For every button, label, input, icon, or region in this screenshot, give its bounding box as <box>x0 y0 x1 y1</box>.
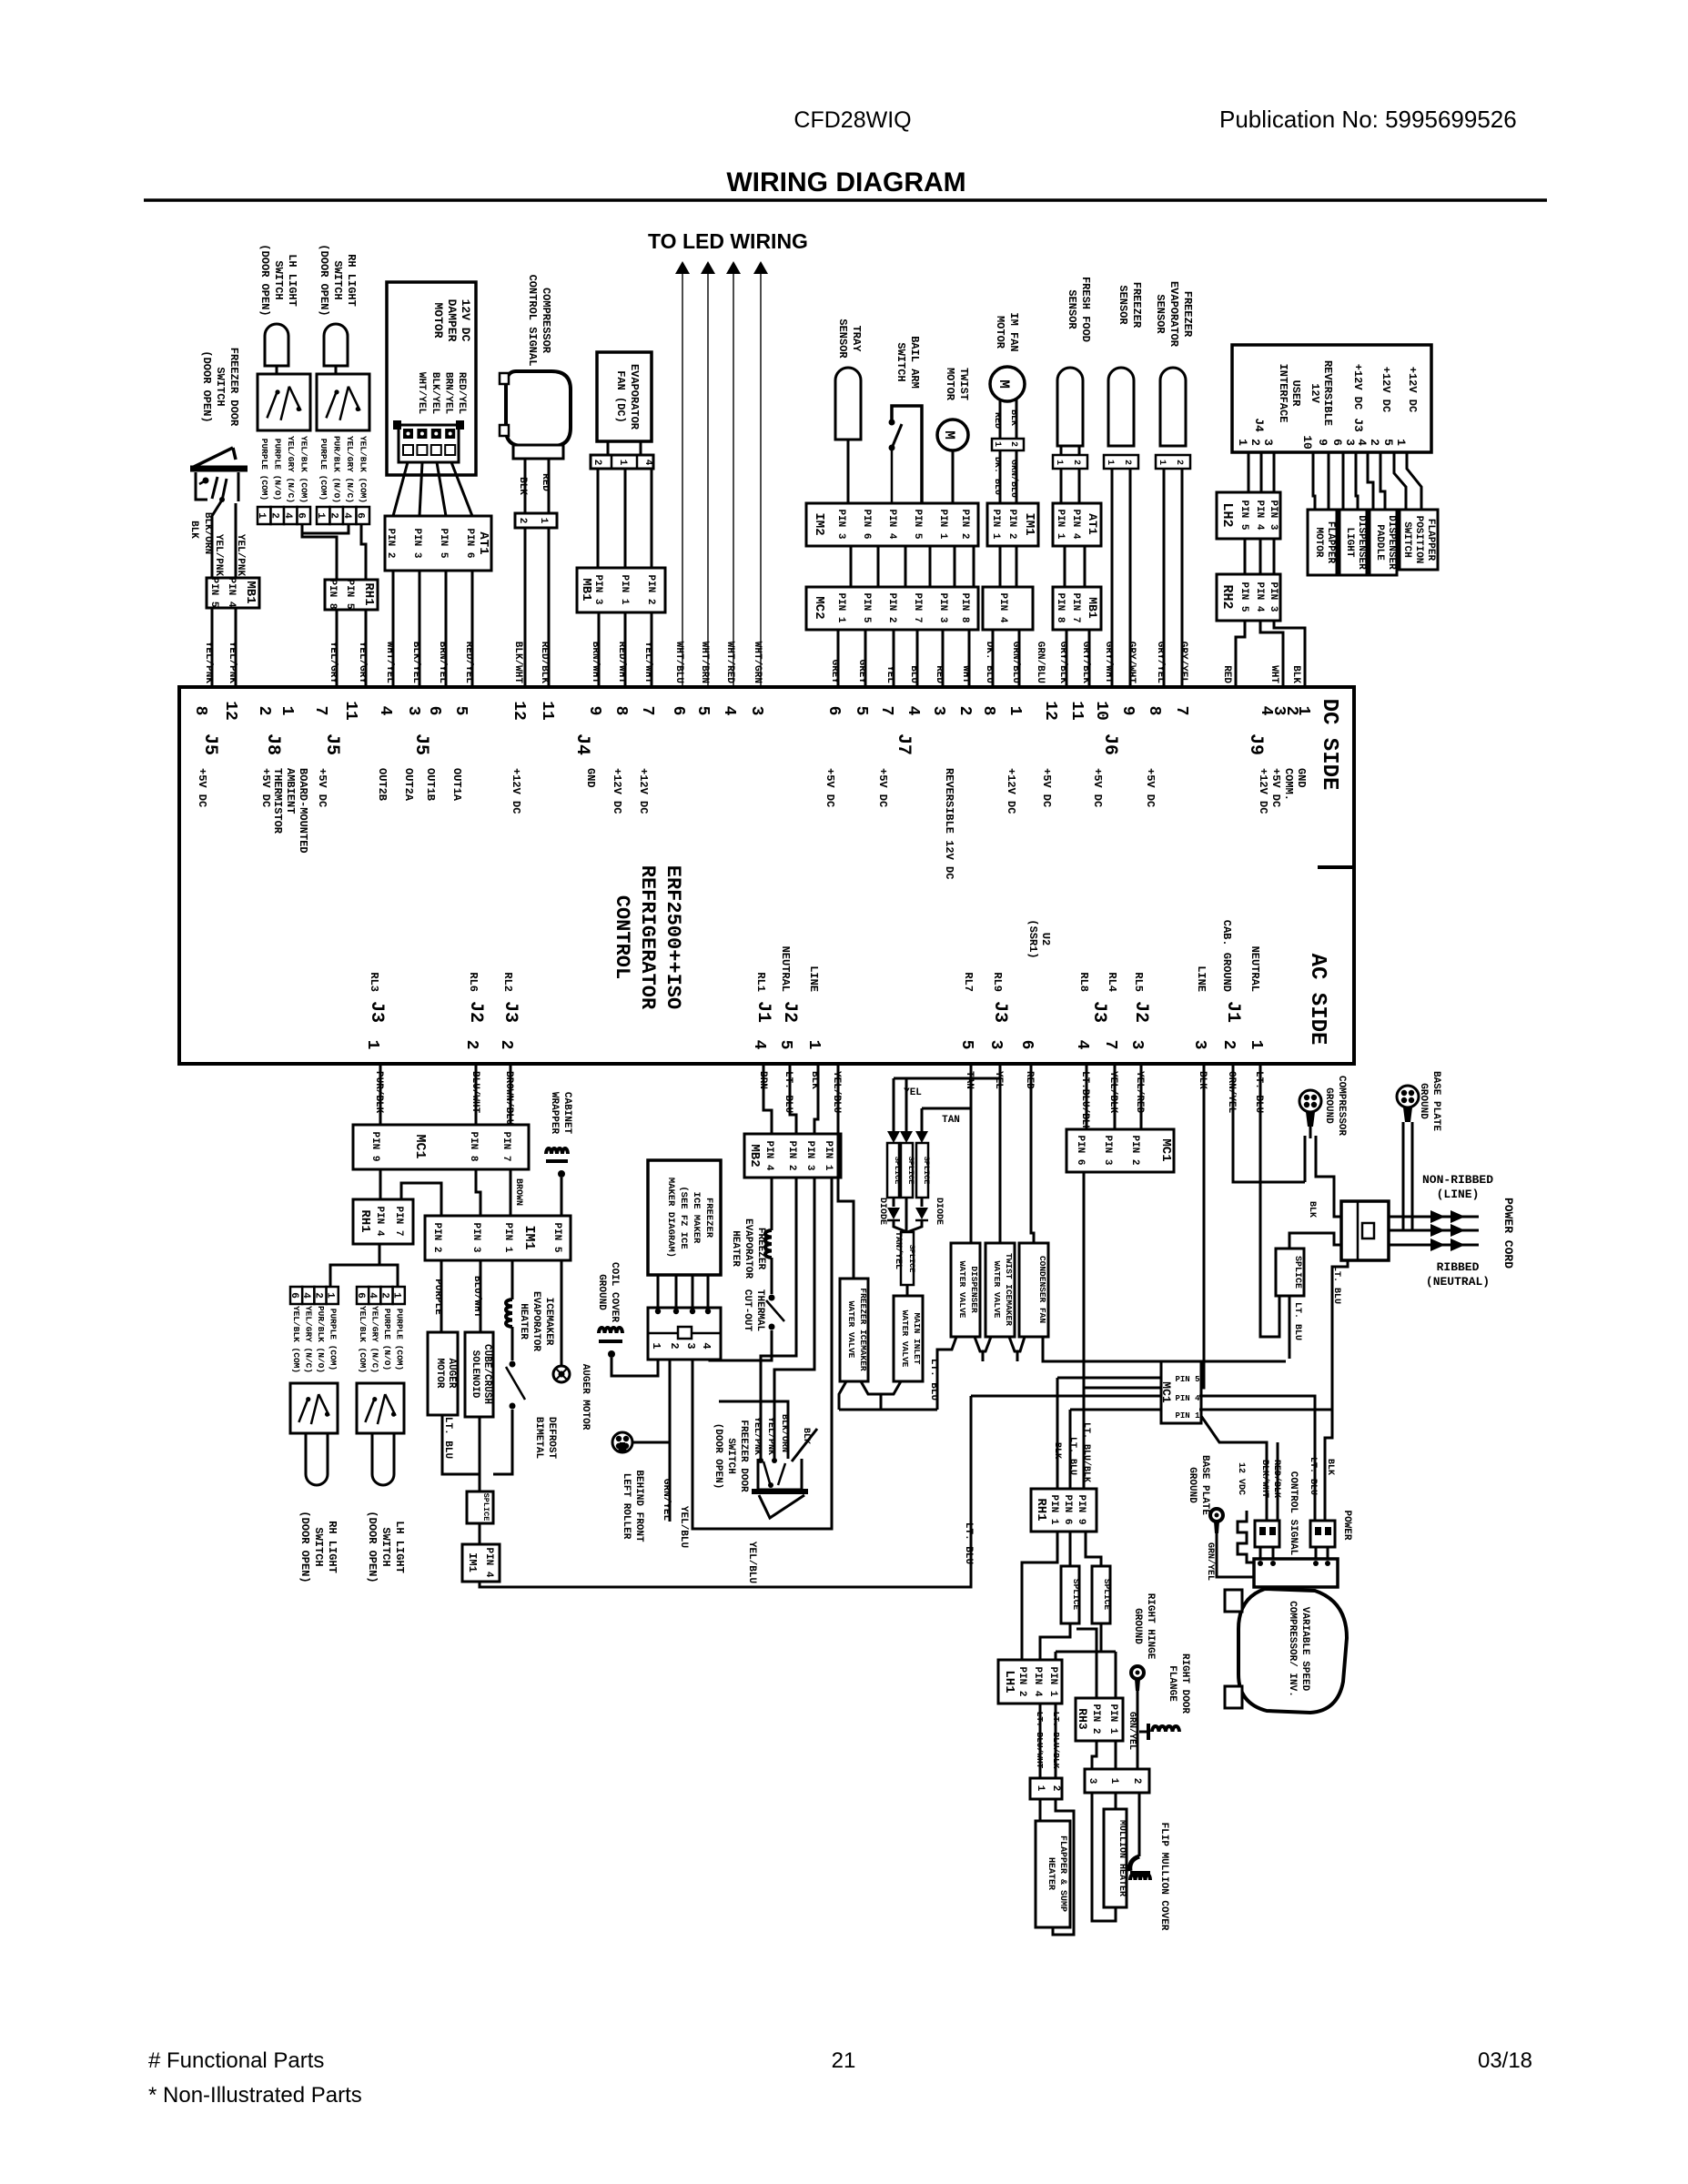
wire control signal wires a <box>1201 1416 1267 1521</box>
svg-text:FREEZER: FREEZER <box>1130 282 1143 329</box>
svg-text:PIN 6: PIN 6 <box>1075 1135 1086 1165</box>
svg-text:8: 8 <box>612 706 630 716</box>
svg-text:NEUTRAL: NEUTRAL <box>779 946 792 992</box>
svg-text:LT. BLU: LT. BLU <box>783 1071 793 1113</box>
wire MC1 pin8 to IM1 pin3 <box>476 1169 480 1216</box>
svg-text:GND: GND <box>584 768 597 788</box>
wire WHT/YEL AT1 to J5 <box>392 571 395 687</box>
wire J3-9 to flapper motor <box>1328 452 1330 510</box>
wire valve trapezoid B <box>1009 1337 1025 1351</box>
connector 2|1|4 (evap fan) <box>591 455 653 469</box>
svg-text:U2: U2 <box>1039 933 1052 945</box>
svg-text:EVAPORATOR: EVAPORATOR <box>628 364 641 430</box>
svg-text:12: 12 <box>510 701 528 721</box>
svg-text:SWITCH: SWITCH <box>214 367 227 406</box>
svg-text:LH LIGHT: LH LIGHT <box>286 254 298 307</box>
svg-text:RH1: RH1 <box>361 582 376 605</box>
svg-text:PIN 3: PIN 3 <box>1268 581 1279 612</box>
svg-text:4: 4 <box>904 706 922 716</box>
LED wiring arrow WHT/GRN <box>753 261 768 274</box>
wire ice maker lead <box>675 1275 678 1308</box>
wire RH1 pin7 to IM1 pin2 <box>401 1183 441 1216</box>
motor IM fan <box>990 367 1025 401</box>
wire mullion heater lead <box>1115 1793 1117 1809</box>
svg-text:3: 3 <box>747 706 765 716</box>
svg-text:RED/BLK: RED/BLK <box>1271 1460 1282 1498</box>
svg-text:PIN 1: PIN 1 <box>619 574 630 604</box>
svg-text:YEL/BLU: YEL/BLU <box>746 1542 757 1583</box>
wire WHT/BLU LED line <box>682 274 683 687</box>
thermal cut-out switch <box>766 1295 784 1330</box>
wire LH2-RH2 a <box>1244 539 1247 574</box>
svg-text:2: 2 <box>312 1292 323 1299</box>
wire RED/YEL AT1 to J5 <box>471 571 474 687</box>
box CUBE/CRUSH SOLENOID <box>465 1332 493 1417</box>
connector MC1 (cabinet) <box>353 1125 529 1169</box>
svg-text:BAIL ARM: BAIL ARM <box>908 336 921 389</box>
wire splice to IM1 pin4 <box>479 1523 481 1544</box>
compressor variable speed inverter <box>1238 1589 1347 1713</box>
svg-text:IM2: IM2 <box>812 512 826 535</box>
svg-text:REVERSIBLE: REVERSIBLE <box>1321 360 1334 426</box>
wire YEL branch <box>999 1064 1002 1243</box>
svg-text:FRESH FOOD: FRESH FOOD <box>1079 277 1092 342</box>
svg-text:WRAPPER: WRAPPER <box>549 1092 560 1135</box>
wire valve trapezoid lower <box>861 1381 901 1394</box>
wire splice mid <box>905 1198 908 1232</box>
svg-text:1: 1 <box>1247 1040 1265 1050</box>
svg-text:+5V DC: +5V DC <box>1269 768 1282 807</box>
wire J4-2 to LH2 <box>1260 452 1263 492</box>
wire WHT/GRN LED line <box>760 274 762 687</box>
svg-text:PIN 4: PIN 4 <box>483 1547 494 1577</box>
defrost bimetal switch <box>506 1361 525 1410</box>
svg-text:BLK: BLK <box>801 1428 811 1444</box>
wire LT.BLU/BLK J3-4 to MC1 <box>1086 1064 1088 1129</box>
wire RH lamp lead <box>335 366 338 374</box>
svg-text:ERF2500++ISO: ERF2500++ISO <box>662 865 684 1009</box>
wire LT. BLU valve chain <box>937 1337 956 1410</box>
svg-text:DEFROST: DEFROST <box>546 1417 557 1460</box>
wire J3-5 to flapper position switch <box>1394 452 1406 510</box>
svg-text:SENSOR: SENSOR <box>1154 294 1167 334</box>
svg-text:RH1: RH1 <box>358 1209 372 1232</box>
svg-text:LT.BLU/BLK: LT.BLU/BLK <box>1079 1071 1090 1131</box>
svg-text:J2: J2 <box>465 1001 486 1023</box>
lamp symbol LH light (bottom) <box>372 1433 394 1485</box>
svg-text:TO LED WIRING: TO LED WIRING <box>648 229 808 253</box>
wire PURPLE IM1 pin2 to auger motor <box>440 1260 443 1332</box>
svg-text:YEL/BLK (COM): YEL/BLK (COM) <box>359 436 369 503</box>
svg-text:AMBIENT: AMBIENT <box>284 768 297 814</box>
svg-text:2: 2 <box>1368 439 1381 446</box>
svg-text:8: 8 <box>979 706 997 716</box>
svg-text:1: 1 <box>1157 460 1167 465</box>
wire base plate gnd wire b <box>1411 1122 1414 1230</box>
sensor freezer <box>1108 368 1134 446</box>
svg-text:(LINE): (LINE) <box>1437 1188 1480 1201</box>
svg-text:PIN 3: PIN 3 <box>470 1222 481 1252</box>
svg-text:J3: J3 <box>500 1001 521 1023</box>
wire LT. BLU/BLK drop to RH1B <box>1083 1388 1086 1489</box>
wire lower valve drop <box>880 1394 883 1410</box>
wire BLK/ORN to MB1 <box>212 501 221 578</box>
wire ice maker lead <box>657 1275 660 1308</box>
svg-text:PIN 2: PIN 2 <box>959 509 970 539</box>
svg-text:RIGHT HINGE: RIGHT HINGE <box>1145 1593 1156 1660</box>
svg-text:LT. BLU: LT. BLU <box>963 1522 974 1564</box>
wire damper pin fan-out 1 <box>393 462 408 516</box>
wire compressor gnd to plug <box>1304 1136 1307 1182</box>
svg-text:(DOOR OPEN): (DOOR OPEN) <box>258 244 271 316</box>
svg-text:AT1: AT1 <box>476 531 490 554</box>
svg-text:3: 3 <box>404 706 422 716</box>
wire RH1B pin9 to splice <box>1086 1532 1101 1566</box>
wire IM2-MC2 link <box>905 546 907 587</box>
svg-text:FLAPPER: FLAPPER <box>1425 519 1436 561</box>
svg-text:5: 5 <box>776 1040 794 1050</box>
svg-text:+12V DC: +12V DC <box>1380 367 1392 412</box>
wire LH2-RH2 c <box>1273 539 1276 574</box>
svg-text:IM1: IM1 <box>466 1552 479 1572</box>
svg-text:OUT2A: OUT2A <box>402 768 415 802</box>
svg-text:HEATER: HEATER <box>730 1230 741 1267</box>
svg-text:MB2: MB2 <box>747 1144 762 1167</box>
wire IM2-MC2 link <box>973 546 975 587</box>
svg-text:PIN 3: PIN 3 <box>592 574 603 604</box>
svg-text:1: 1 <box>325 1292 336 1299</box>
svg-text:MB1: MB1 <box>579 578 593 601</box>
svg-text:3: 3 <box>1261 439 1275 446</box>
wire YEL splice feed <box>894 1077 1000 1080</box>
wire IM1 to PIN4 box b <box>1016 546 1018 587</box>
svg-text:2: 2 <box>1071 460 1081 465</box>
wire diode a lead <box>893 1198 895 1207</box>
wire solenoid to splice <box>479 1417 481 1491</box>
svg-text:RH1: RH1 <box>1034 1498 1048 1521</box>
svg-text:PIN 1: PIN 1 <box>937 509 948 539</box>
wire inverter feed a <box>1259 1547 1262 1559</box>
wire J3-4 to dispenser paddle <box>1368 452 1373 510</box>
wire GRY/BLK to J6 b <box>1088 630 1091 687</box>
svg-text:10: 10 <box>1300 435 1314 450</box>
svg-text:1: 1 <box>1054 460 1064 465</box>
ground lug compressor ground <box>1299 1090 1321 1138</box>
svg-text:3: 3 <box>1127 1040 1146 1050</box>
svg-text:PADDLE: PADDLE <box>1374 524 1385 561</box>
svg-text:M: M <box>996 379 1012 389</box>
svg-text:M: M <box>941 430 957 440</box>
svg-text:1: 1 <box>363 1040 381 1050</box>
svg-text:HEATER: HEATER <box>1046 1857 1056 1890</box>
connector RH1 (light switches) <box>325 579 378 610</box>
svg-text:SPLICE: SPLICE <box>1102 1579 1112 1611</box>
svg-text:SWITCH: SWITCH <box>725 1438 736 1474</box>
svg-text:RED/YEL: RED/YEL <box>456 372 467 415</box>
svg-text:PIN 5: PIN 5 <box>551 1222 562 1252</box>
inverter connector strip <box>1254 1559 1338 1587</box>
wire J3-10 to flapper motor <box>1313 452 1315 510</box>
svg-text:WIRING DIAGRAM: WIRING DIAGRAM <box>726 167 965 197</box>
svg-text:PIN 9: PIN 9 <box>1076 1494 1087 1524</box>
wire LT. BLU/BLK MC1 pin6 down <box>1083 1172 1086 1388</box>
wire YEL/WHT to J4 <box>651 612 653 687</box>
svg-text:MOTOR: MOTOR <box>431 302 445 338</box>
svg-text:LT. BLU/WHT: LT. BLU/WHT <box>1035 1712 1045 1769</box>
svg-text:12V: 12V <box>1309 383 1321 403</box>
wire damper pin fan-out 3 <box>437 462 446 516</box>
svg-text:2: 2 <box>517 518 528 524</box>
svg-text:+5V DC: +5V DC <box>1144 768 1157 807</box>
svg-text:3: 3 <box>1087 1778 1097 1785</box>
svg-text:5: 5 <box>693 706 712 716</box>
wire coil cover gnd to fz connector <box>612 1358 658 1376</box>
svg-text:PIN 3: PIN 3 <box>411 528 422 558</box>
wire TAN splice feed <box>922 1107 971 1110</box>
svg-text:RL2: RL2 <box>501 972 514 992</box>
wire LT. BLU J2-5 to MB2 <box>790 1064 796 1134</box>
connector 12 VDC control signal <box>1255 1521 1279 1547</box>
svg-text:YEL/BLU: YEL/BLU <box>678 1506 689 1548</box>
svg-text:8: 8 <box>1145 706 1163 716</box>
wire evap fan stub 2 <box>640 441 642 455</box>
svg-text:PIN 2: PIN 2 <box>1129 1135 1140 1165</box>
svg-text:2: 2 <box>1248 439 1262 446</box>
wire flip mullion lead <box>1138 1793 1141 1838</box>
wire switch feed jumper <box>346 1265 398 1287</box>
svg-text:LT. BLU/BLK: LT. BLU/BLK <box>1081 1422 1092 1482</box>
box DISPENSER LIGHT <box>1339 510 1367 575</box>
svg-text:9: 9 <box>1316 439 1329 446</box>
svg-text:LT. BLU: LT. BLU <box>1067 1437 1077 1475</box>
LED wiring arrow WHT/RED <box>726 261 741 274</box>
connector pins 6 4 2 1 (LH light switch bottom) <box>355 1287 405 1304</box>
wire YEL/BLU fz pin3 loop <box>692 1178 832 1529</box>
wire RH1B pin6 to splice <box>1069 1532 1072 1566</box>
connector LH2 <box>1217 492 1280 539</box>
svg-text:BASE PLATE: BASE PLATE <box>1430 1071 1441 1131</box>
svg-text:6: 6 <box>669 706 687 716</box>
connector pins 1 2 4 6 (LH light switch) <box>256 507 310 524</box>
svg-text:BASE PLATE: BASE PLATE <box>1199 1455 1210 1515</box>
svg-text:1: 1 <box>1105 460 1115 465</box>
svg-text:YEL: YEL <box>904 1087 922 1098</box>
svg-text:NEUTRAL: NEUTRAL <box>1248 946 1261 992</box>
wire YEL/GRY RH1 pin5 to J5 <box>336 610 339 687</box>
svg-text:MB1: MB1 <box>1086 597 1099 619</box>
wire GRY/BLK to J6 <box>1066 630 1068 687</box>
svg-text:PIN 8: PIN 8 <box>1055 592 1066 622</box>
wire diode join a <box>894 1221 907 1232</box>
heater coil icemaker evaporator <box>506 1299 512 1327</box>
svg-text:REVERSIBLE 12V DC: REVERSIBLE 12V DC <box>943 768 955 879</box>
svg-text:PIN 4: PIN 4 <box>1032 1666 1043 1696</box>
svg-text:BROWN: BROWN <box>513 1178 523 1206</box>
svg-text:MC1: MC1 <box>412 1134 428 1158</box>
switch RH light switch <box>317 374 369 430</box>
wire splice2 to bus <box>1100 1623 1103 1652</box>
svg-text:PUR/BLK (N/O): PUR/BLK (N/O) <box>332 436 342 503</box>
svg-text:FREEZER: FREEZER <box>703 1198 714 1239</box>
wire bus to LH1 pin1 <box>1055 1652 1057 1660</box>
switch LH light switch (bottom) <box>357 1383 404 1433</box>
lamp auger motor <box>553 1366 570 1382</box>
svg-text:PIN 5: PIN 5 <box>208 577 219 607</box>
svg-text:CONDENSER FAN: CONDENSER FAN <box>1037 1256 1047 1323</box>
wire power cord line <box>1389 1216 1479 1218</box>
svg-text:BLK: BLK <box>1307 1201 1317 1218</box>
wire GRN/YEL J1-2 to ground <box>1233 1064 1305 1182</box>
damper motor connector <box>393 420 464 462</box>
svg-text:ICEMAKER: ICEMAKER <box>543 1298 554 1346</box>
wire BROWN/BLUE J3 to MC1 <box>510 1064 512 1125</box>
svg-text:PIN 5: PIN 5 <box>1238 581 1249 612</box>
box TWIST ICEMAKER WATER VALVE <box>986 1243 1015 1337</box>
wire BLK im fan lead <box>1016 398 1018 439</box>
svg-text:7: 7 <box>638 706 656 716</box>
svg-text:LH LIGHT: LH LIGHT <box>393 1521 406 1573</box>
svg-text:EVAPORATOR: EVAPORATOR <box>743 1218 753 1279</box>
svg-text:BLU/WHT: BLU/WHT <box>471 1276 482 1319</box>
svg-text:+12V DC: +12V DC <box>1406 367 1419 412</box>
svg-text:PURPLE (COM): PURPLE (COM) <box>395 1309 405 1370</box>
svg-text:6: 6 <box>425 706 443 716</box>
svg-text:6: 6 <box>288 1292 299 1299</box>
svg-text:YEL/GRY (N/C): YEL/GRY (N/C) <box>345 436 355 503</box>
wire power cord line <box>1389 1244 1479 1247</box>
svg-text:SWITCH: SWITCH <box>312 1527 325 1566</box>
svg-text:PIN 4: PIN 4 <box>1175 1394 1200 1403</box>
svg-text:PIN 1: PIN 1 <box>1048 1494 1059 1524</box>
svg-text:YEL/BLK (COM): YEL/BLK (COM) <box>291 1306 301 1373</box>
wire LH cell6 to RH1 <box>302 524 337 580</box>
svg-text:RH LIGHT: RH LIGHT <box>345 254 358 307</box>
svg-text:AUGER MOTOR: AUGER MOTOR <box>580 1364 591 1431</box>
svg-text:RL6: RL6 <box>467 972 480 992</box>
svg-text:J8: J8 <box>262 733 283 755</box>
ground lug right door flange <box>1139 1724 1179 1740</box>
svg-text:PURPLE (COM): PURPLE (COM) <box>318 439 329 500</box>
wire splice1 to LH1 pin4 <box>1040 1623 1070 1660</box>
svg-text:# Functional Parts: # Functional Parts <box>148 2048 324 2073</box>
connector MB2 <box>744 1134 841 1178</box>
svg-text:11: 11 <box>1067 701 1086 721</box>
svg-text:RIGHT DOOR: RIGHT DOOR <box>1179 1653 1190 1714</box>
svg-text:PUR/BLK (N/O): PUR/BLK (N/O) <box>316 1306 326 1373</box>
svg-text:RL3: RL3 <box>368 972 380 992</box>
svg-text:PIN 2: PIN 2 <box>385 528 396 558</box>
svg-text:DISPENSER: DISPENSER <box>1356 515 1367 570</box>
svg-text:SPLICE: SPLICE <box>1292 1256 1302 1289</box>
wire heater to bimetal <box>511 1327 514 1360</box>
svg-text:CUBE/CRUSH: CUBE/CRUSH <box>481 1344 492 1404</box>
wire ff sensor to AT1 2 <box>1078 469 1081 503</box>
svg-text:RL5: RL5 <box>1132 972 1145 992</box>
svg-text:PIN 4: PIN 4 <box>997 592 1008 622</box>
wire flapper heater lead 2 <box>1053 1799 1074 1935</box>
connector RH1 (heater) <box>1031 1489 1097 1532</box>
svg-text:BRN/YEL: BRN/YEL <box>442 372 453 415</box>
wire IM2-MC2 link <box>929 546 932 587</box>
wire GRN/BLU to J7 <box>1018 630 1021 687</box>
svg-text:4: 4 <box>1355 439 1369 446</box>
svg-text:J5: J5 <box>321 733 342 755</box>
wire WHT/RED LED line <box>733 274 734 687</box>
connector RH2 <box>1217 574 1280 621</box>
connector pins 1 2 4 6 (RH light switch) <box>315 507 369 524</box>
svg-text:RED: RED <box>992 412 1002 429</box>
wire cutout to fz pin4 <box>710 1330 772 1360</box>
svg-text:TRAY: TRAY <box>850 326 863 353</box>
connector 1|2 (freezer sensor) <box>1104 455 1138 469</box>
wire fz evap sensor lead b <box>1181 469 1184 687</box>
svg-text:MC1: MC1 <box>1158 1138 1173 1161</box>
svg-text:SENSOR: SENSOR <box>836 318 849 359</box>
wire BRN/YEL AT1 to J5 <box>445 571 448 687</box>
svg-text:+5V DC: +5V DC <box>1091 768 1104 807</box>
wire LH2-RH2 b <box>1259 539 1262 574</box>
svg-text:YEL/GRY (N/C): YEL/GRY (N/C) <box>304 1306 314 1373</box>
svg-text:WHT: WHT <box>1269 665 1279 683</box>
svg-text:BLK: BLK <box>188 521 199 539</box>
svg-text:FLIP MULLION COVER: FLIP MULLION COVER <box>1158 1823 1169 1931</box>
sensor freezer evaporator <box>1160 368 1186 446</box>
svg-text:12 VDC: 12 VDC <box>1236 1462 1246 1495</box>
svg-text:WATER VALVE: WATER VALVE <box>992 1261 1002 1319</box>
wire RED/BLK to J4 <box>548 528 551 687</box>
svg-text:BROWN/BLUE: BROWN/BLUE <box>503 1071 514 1131</box>
wire MC1C pin4 row <box>971 1395 1161 1398</box>
svg-text:MOTOR: MOTOR <box>1313 527 1324 557</box>
svg-text:PIN 4: PIN 4 <box>763 1140 774 1170</box>
svg-text:RL9: RL9 <box>991 972 1004 992</box>
splice (yel) <box>887 1143 902 1198</box>
svg-text:LT. BLU: LT. BLU <box>1253 1071 1264 1113</box>
lamp symbol LH light <box>265 324 288 366</box>
wire YEL/PNK a <box>761 1178 796 1459</box>
svg-text:PIN 4: PIN 4 <box>374 1206 385 1236</box>
connector 1|2 (flapper heater) <box>1030 1778 1062 1799</box>
svg-text:YEL/PNK: YEL/PNK <box>765 1417 776 1455</box>
svg-text:FLAPPER: FLAPPER <box>1325 521 1336 564</box>
svg-text:PIN 1: PIN 1 <box>1175 1411 1200 1421</box>
svg-text:GRN/YEL: GRN/YEL <box>1127 1712 1137 1750</box>
svg-text:EVAPORATOR: EVAPORATOR <box>1167 281 1180 348</box>
svg-text:4: 4 <box>1073 1040 1091 1050</box>
connector IM1 PIN 4 <box>983 587 1033 630</box>
svg-text:YEL: YEL <box>993 1071 1004 1089</box>
wire DK. BLU im fan <box>999 450 1002 503</box>
wire YEL/BLK J3-7 to MC1 <box>1114 1064 1117 1129</box>
wire RED compressor lead <box>548 459 551 513</box>
svg-text:J3: J3 <box>366 1001 387 1023</box>
wire fz im valve left leg <box>839 1381 846 1410</box>
wire IM1 to PIN4 box a <box>999 546 1002 587</box>
svg-text:REFRIGERATOR: REFRIGERATOR <box>636 865 659 1010</box>
svg-text:DC SIDE: DC SIDE <box>1317 699 1341 791</box>
svg-text:BLK: BLK <box>517 477 528 495</box>
svg-text:DISPENSER: DISPENSER <box>1386 515 1397 570</box>
ground lug cabinet wrapper <box>546 1148 568 1178</box>
svg-text:FLANGE: FLANGE <box>1167 1665 1178 1702</box>
splice (tan) <box>916 1143 931 1198</box>
wire splice1 to RH3 pin2 <box>1076 1629 1097 1698</box>
svg-text:2: 2 <box>497 1040 515 1050</box>
svg-text:+12V DC: +12V DC <box>1351 364 1364 409</box>
svg-text:ICE MAKER: ICE MAKER <box>691 1192 702 1244</box>
connector MB1 (door switch) <box>207 577 259 608</box>
svg-text:3: 3 <box>986 1040 1005 1050</box>
